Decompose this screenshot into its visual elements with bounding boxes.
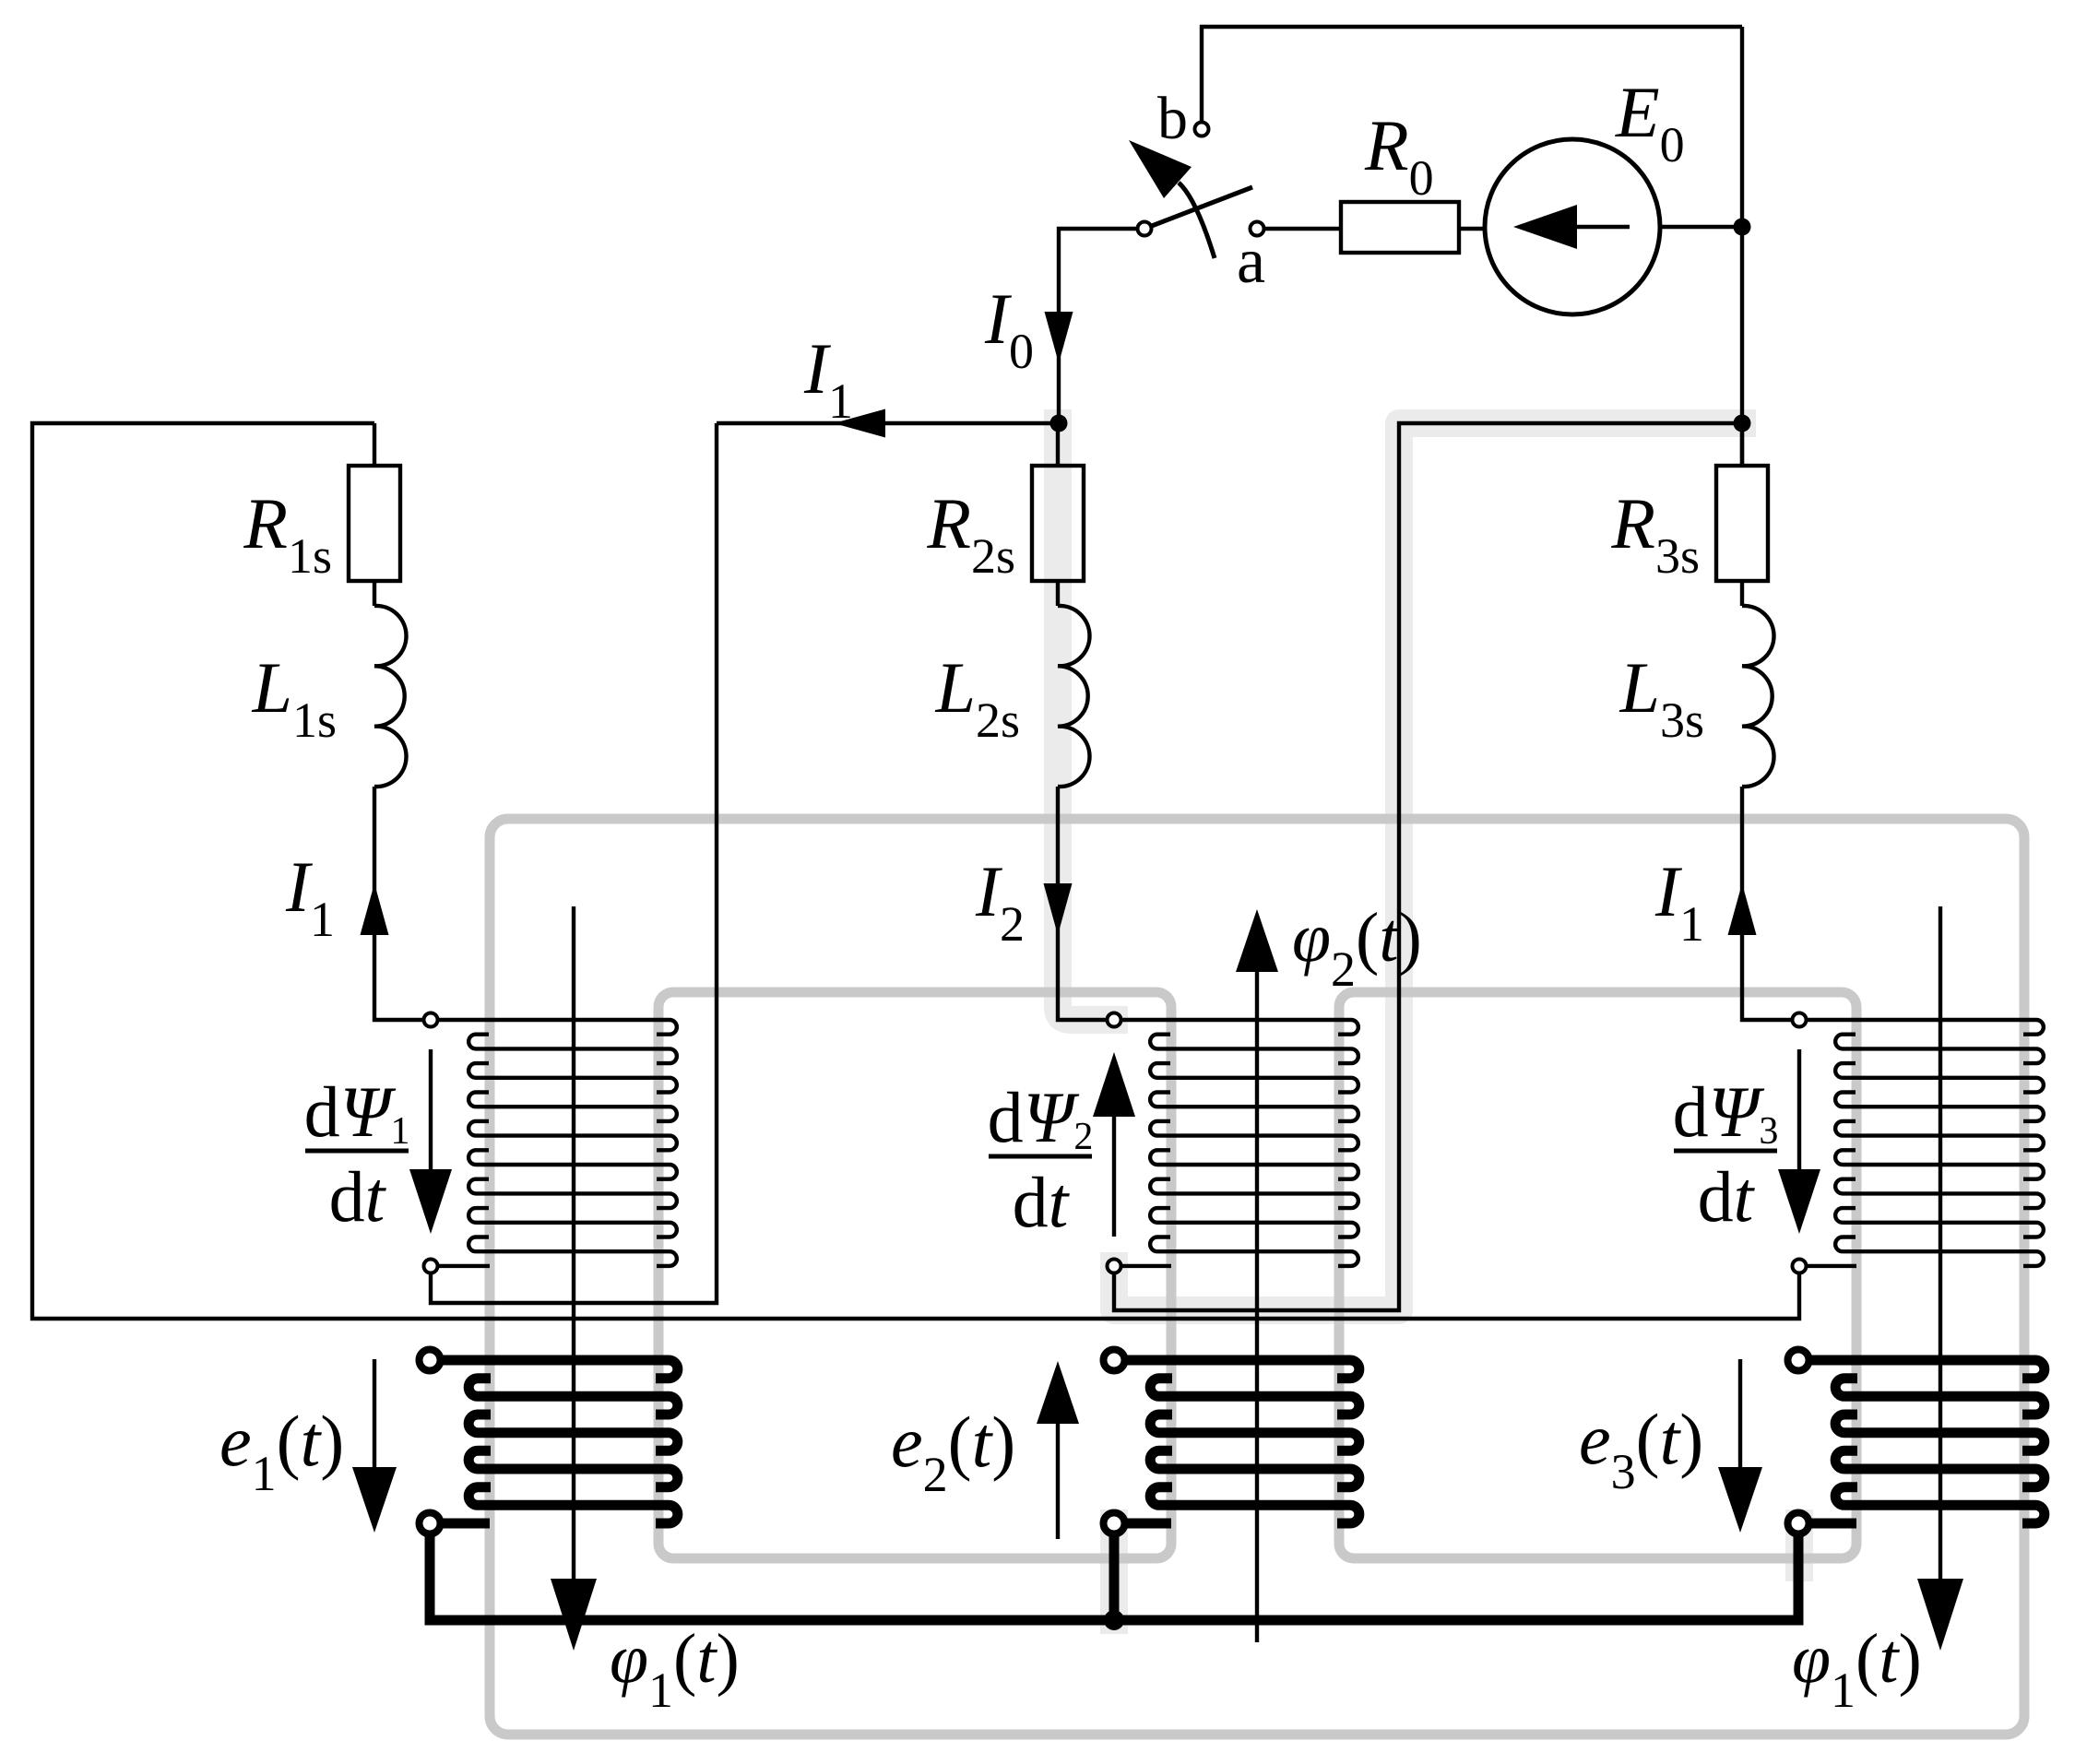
winding W1 primary <box>437 1020 677 1266</box>
svg-text:dt: dt <box>1698 1156 1756 1237</box>
terminal E3 top <box>1788 1350 1809 1371</box>
wire branch2 R to L <box>1056 581 1060 606</box>
source E0 <box>1485 139 1660 314</box>
arrow e3 <box>1738 1359 1742 1467</box>
winding E1 secondary (bold) <box>441 1360 678 1523</box>
inductor L1s <box>374 606 407 787</box>
wire E2 drop (bold) <box>1109 1533 1120 1620</box>
junction branch3 top <box>1734 415 1751 432</box>
inductor L2s <box>1058 606 1090 787</box>
wire branch1 top <box>373 423 376 466</box>
terminal E1 top <box>420 1350 441 1371</box>
terminal E3 bottom <box>1788 1513 1809 1534</box>
wire branch3 top <box>1740 423 1744 466</box>
wire branch3 L to coil <box>1742 787 1793 1020</box>
wire I1 top horizontal <box>717 421 1059 425</box>
resistor R1s <box>349 466 400 581</box>
terminal W1 top <box>424 1013 438 1027</box>
terminal W2 bottom <box>1108 1260 1121 1273</box>
switch pivot terminal <box>1138 222 1152 236</box>
terminal W3 bottom <box>1793 1260 1807 1273</box>
terminal W3 top <box>1793 1013 1807 1027</box>
terminal a <box>1251 222 1264 236</box>
winding W3 primary <box>1806 1020 2044 1266</box>
switch travel arc <box>1179 183 1215 258</box>
resistor R0 <box>1341 202 1459 253</box>
junction branch2 top <box>1050 415 1068 432</box>
wire branch1 R to L <box>373 581 376 606</box>
resistor R2s <box>1032 466 1084 581</box>
wire return loop branch2 <box>1114 423 1742 1310</box>
resistor R3s <box>1716 466 1768 581</box>
flux line phi1 right <box>1939 906 1942 1579</box>
wire R0 to E0 <box>1459 227 1485 231</box>
arrow e2 <box>1056 1424 1060 1539</box>
terminal b <box>1195 123 1209 136</box>
wire branch3 R to L <box>1740 581 1744 606</box>
wire E0 to right rail <box>1660 225 1742 229</box>
svg-text:a: a <box>1237 226 1265 297</box>
inductor L3s <box>1742 606 1774 787</box>
terminal E2 top <box>1104 1350 1125 1371</box>
junction secondary bus <box>1104 1610 1124 1630</box>
arrow I1 left branch <box>361 883 389 935</box>
svg-text:dt: dt <box>329 1156 387 1237</box>
terminal W2 top <box>1108 1013 1121 1027</box>
wire a to R0 <box>1264 227 1341 231</box>
arrow I0 <box>1045 312 1073 363</box>
arrow I1 right branch <box>1728 883 1757 935</box>
arrow e1 <box>373 1359 376 1467</box>
wire top loop <box>1202 27 1742 122</box>
core outer loop (gray magnetic core) <box>490 819 2024 1734</box>
arrow I2 <box>1044 883 1073 935</box>
arrow dPsi2/dt <box>1112 1117 1116 1237</box>
junction E0-rail <box>1734 219 1751 236</box>
winding E2 secondary (bold) <box>1124 1360 1359 1523</box>
terminal W1 bottom <box>424 1260 438 1273</box>
switch blade <box>1144 187 1252 229</box>
svg-text:b: b <box>1157 85 1188 152</box>
wire branch1 L to coil <box>374 787 424 1020</box>
node halo path (light highlight of secondary circuit 2) <box>1058 423 1799 1620</box>
terminal E2 bottom <box>1104 1513 1125 1534</box>
wire left outer loop <box>32 423 1799 1319</box>
arrow dPsi1/dt <box>429 1049 433 1169</box>
wire coil1 bottom to riser <box>431 423 717 1303</box>
arrow I1 top <box>834 409 885 438</box>
wire right rail down <box>1740 27 1744 466</box>
wire branch2 top <box>1056 423 1060 466</box>
flux line phi1 left <box>572 906 575 1579</box>
svg-text:dt: dt <box>1013 1162 1071 1242</box>
winding W2 primary <box>1120 1020 1358 1266</box>
core window 1 <box>658 992 1171 1558</box>
wire branch2 L to coil <box>1058 787 1108 1020</box>
arrow dPsi3/dt <box>1797 1049 1801 1169</box>
flux line phi2 <box>1255 972 1259 1642</box>
wire pivot to I0 corner <box>1059 229 1138 423</box>
switch arrow <box>1129 140 1192 198</box>
wire secondary bus (bold) <box>430 1533 1798 1620</box>
core window 2 <box>1339 992 1856 1558</box>
terminal E1 bottom <box>420 1513 441 1534</box>
winding E3 secondary (bold) <box>1809 1360 2045 1523</box>
